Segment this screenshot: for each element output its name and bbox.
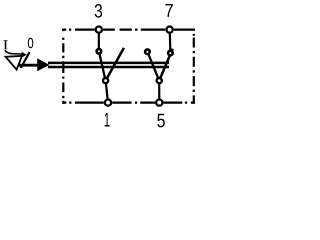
terminal 5 circle: [156, 100, 162, 106]
pole2 fixed contact circle: [168, 51, 173, 56]
actuator triangle: [6, 56, 22, 70]
mechanical linkage box: left dash-dot edge: [62, 29, 64, 104]
mechanical linkage box: right dash-dot edge: [193, 29, 195, 104]
actuator bar lower line: [48, 66, 169, 69]
label terminal 7: [165, 4, 172, 17]
pole1 fixed contact circle: [97, 49, 102, 54]
actuator arc with arrowhead (I to 0 movement): [5, 50, 23, 54]
label terminal 3: [95, 4, 102, 18]
wire terminal 3 to contact: [98, 30, 100, 52]
label position I: [3, 40, 8, 49]
terminal 1 circle: [105, 100, 111, 106]
actuator bar upper line: [48, 62, 169, 65]
pole1 moving contact circle: [103, 78, 108, 83]
wire moving contact to terminal 1: [106, 81, 108, 103]
pole2 floating contact circle: [145, 49, 150, 54]
drive arrow head: [37, 58, 49, 71]
wire moving contact to terminal 5: [158, 81, 160, 103]
mechanical linkage box: bottom dash-dot edge: [62, 101, 195, 103]
terminal 7 circle: [167, 27, 173, 33]
label position 0: [28, 38, 34, 49]
pole2 blade open position: [147, 52, 159, 81]
pole2 blade closed (7-5): [159, 49, 173, 81]
pole2 moving contact circle: [157, 78, 162, 83]
mechanical linkage box: top dash-dot edge: [62, 29, 195, 31]
pole1 blade open position: [106, 48, 124, 81]
actuator lever line: [21, 52, 30, 68]
terminal 3 circle: [96, 27, 102, 33]
label terminal 1: [105, 113, 110, 127]
label terminal 5: [157, 114, 165, 128]
pole1 blade closed (3-1): [99, 51, 106, 80]
actuator shaft: [19, 64, 40, 67]
wire terminal 7 to contact: [169, 30, 172, 53]
